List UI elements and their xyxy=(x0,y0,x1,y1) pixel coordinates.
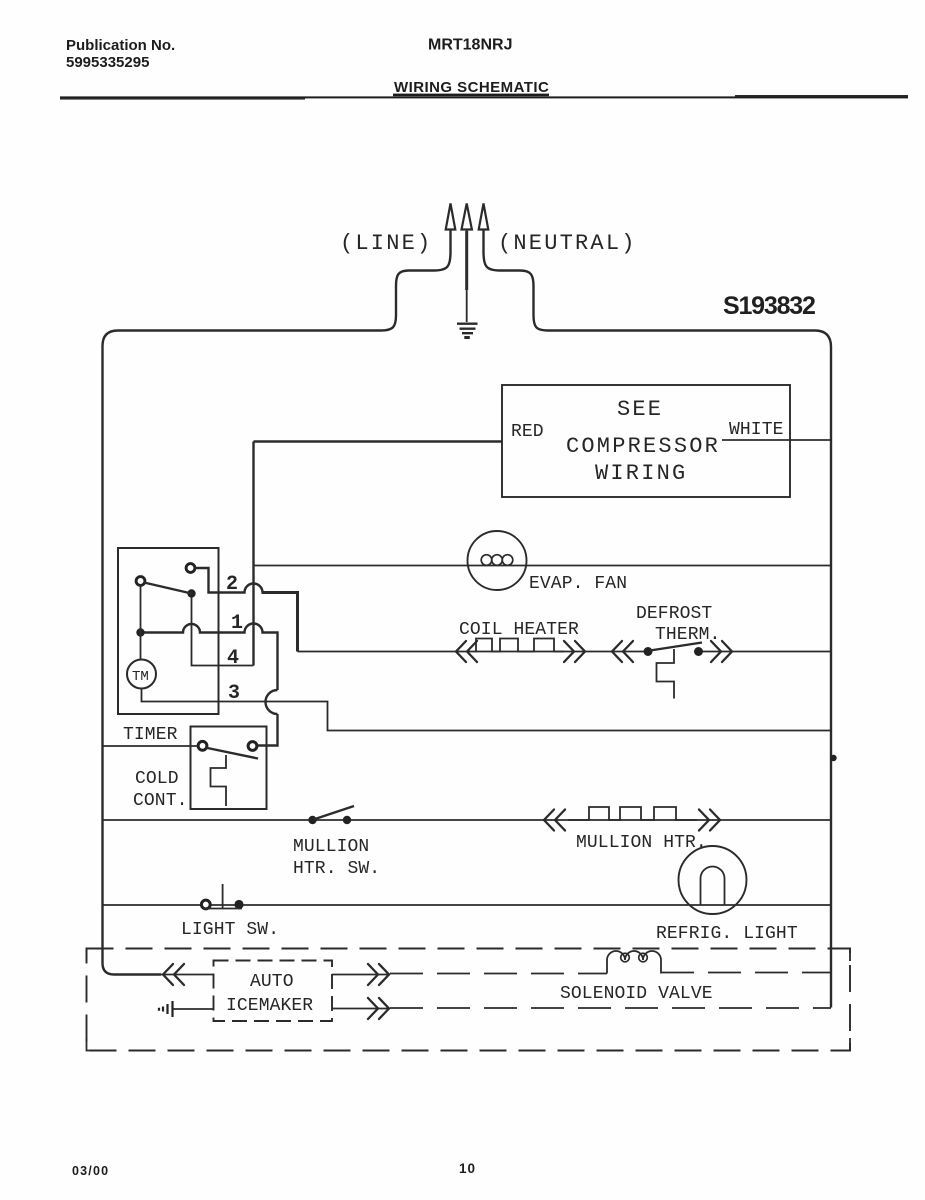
terminal mullion switch right (dot) xyxy=(343,816,351,824)
bellows zigzag defrost therm xyxy=(657,649,675,699)
svg-text:RED: RED xyxy=(511,422,544,442)
terminal timer junction (dot) xyxy=(136,628,144,636)
switch blade mullion heater switch xyxy=(314,806,355,820)
svg-text:4: 4 xyxy=(227,647,239,670)
svg-text:S193832: S193832 xyxy=(723,292,815,320)
svg-text:WIRING: WIRING xyxy=(595,461,687,486)
terminal cold control left (ring) xyxy=(198,741,207,750)
wire white lead from compressor box to right bus xyxy=(722,439,831,441)
svg-text:DEFROST: DEFROST xyxy=(636,604,712,624)
svg-text:10: 10 xyxy=(459,1161,476,1176)
svg-text:ICEMAKER: ICEMAKER xyxy=(226,996,313,1016)
wire evaporator fan line xyxy=(254,565,832,567)
svg-text:3: 3 xyxy=(228,682,240,705)
switch blade cold control xyxy=(205,748,258,759)
wire vertical feeder x=253 xyxy=(252,442,254,666)
dashed wire lower to right bus xyxy=(390,1007,831,1009)
svg-text:AUTO: AUTO xyxy=(250,972,294,992)
plunger light switch xyxy=(222,884,224,908)
svg-text:MULLION HTR.: MULLION HTR. xyxy=(576,833,707,853)
wire pin 2: contact to coil heater line (with crossover hump) xyxy=(195,568,263,593)
svg-text:(LINE): (LINE) xyxy=(340,231,432,256)
svg-text:EVAP. FAN: EVAP. FAN xyxy=(529,574,627,594)
terminal cold control right (ring) xyxy=(248,742,257,751)
wire center ground stem xyxy=(466,230,468,323)
terminal mullion switch left (dot) xyxy=(308,816,316,824)
svg-text:Publication No.: Publication No. xyxy=(66,37,175,54)
wire coil heater line xyxy=(298,651,832,653)
wire pin 3: TM motor to lower bus wire xyxy=(142,689,832,731)
svg-text:MRT18NRJ: MRT18NRJ xyxy=(428,37,512,54)
motor EVAP. FAN circle xyxy=(468,531,527,590)
lamp filament loop xyxy=(701,867,725,906)
arrow neutral terminal xyxy=(479,204,489,230)
connector chevrons into icemaker xyxy=(163,964,184,985)
svg-text:COLD: COLD xyxy=(135,769,179,789)
connector chevrons right of defrost therm xyxy=(711,641,732,662)
dashed wire to solenoid valve xyxy=(390,973,607,975)
svg-text:HTR. SW.: HTR. SW. xyxy=(293,859,380,879)
timer box xyxy=(118,548,219,714)
resistor COIL HEATER xyxy=(475,639,564,652)
terminal defrost therm left (dot) xyxy=(644,647,653,656)
svg-text:(NEUTRAL): (NEUTRAL) xyxy=(498,231,637,256)
wire mullion heater line xyxy=(103,819,832,821)
bellows zigzag cold control xyxy=(211,755,227,806)
wire icemaker lower output xyxy=(332,1008,390,1010)
header title underline xyxy=(393,94,549,97)
dashed wire solenoid to right bus xyxy=(661,972,831,974)
header horizontal rule xyxy=(60,96,908,98)
connector chevrons icemaker upper output xyxy=(368,964,389,985)
chassis ground symbol icemaker xyxy=(159,1001,173,1017)
svg-text:REFRIG. LIGHT: REFRIG. LIGHT xyxy=(656,924,798,944)
wire icemaker ground lead xyxy=(173,1008,214,1010)
svg-text:TM: TM xyxy=(132,669,149,685)
svg-text:1: 1 xyxy=(231,612,243,635)
connector chevrons icemaker lower output xyxy=(368,998,389,1019)
resistor MULLION HTR. xyxy=(568,807,697,820)
ground symbol (top center) xyxy=(457,324,478,338)
wire left bus to cold control xyxy=(103,745,201,747)
svg-text:WHITE: WHITE xyxy=(729,420,784,440)
switch blade timer xyxy=(144,583,192,594)
svg-text:SEE: SEE xyxy=(617,397,663,422)
connector chevrons right of mullion heater xyxy=(699,810,720,831)
motor TM circle xyxy=(127,660,156,689)
svg-text:TIMER: TIMER xyxy=(123,725,178,745)
svg-text:2: 2 xyxy=(226,573,238,596)
box COLD CONT xyxy=(191,727,267,810)
wire light switch line xyxy=(103,904,832,906)
arrow line terminal xyxy=(446,204,456,230)
svg-text:03/00: 03/00 xyxy=(72,1164,109,1178)
wire pin 1: junction to cold control (two crossover humps) xyxy=(145,624,278,746)
dashed box corner brackets xyxy=(87,949,851,1051)
connector chevrons left of mullion heater xyxy=(544,810,565,831)
connector chevrons left of defrost therm xyxy=(612,641,633,662)
svg-text:COMPRESSOR: COMPRESSOR xyxy=(566,434,720,459)
terminal light switch left (ring) xyxy=(201,900,210,909)
crossover hump on vertical over TM wire xyxy=(266,690,278,714)
wire pin 4: contact 4 to feeder bottom xyxy=(192,597,254,666)
solenoid coil loops xyxy=(621,953,648,962)
wire pivot to TM motor xyxy=(140,585,142,660)
wire red lead to compressor box xyxy=(254,440,503,442)
solenoid valve coil xyxy=(607,951,661,974)
wire icemaker upper output xyxy=(332,974,390,976)
terminal timer pivot (ring) xyxy=(136,577,145,586)
svg-text:WIRING SCHEMATIC: WIRING SCHEMATIC xyxy=(394,79,549,96)
wire line input S-curve to left bus xyxy=(103,230,451,975)
svg-text:CONT.: CONT. xyxy=(133,791,188,811)
svg-text:THERM.: THERM. xyxy=(655,625,720,645)
wire neutral input S-curve to right bus xyxy=(484,230,832,1008)
box AUTO ICEMAKER (dashed) xyxy=(214,961,333,1022)
switch blade defrost therm xyxy=(650,643,702,651)
svg-text:COIL HEATER: COIL HEATER xyxy=(459,620,579,640)
svg-text:5995335295: 5995335295 xyxy=(66,54,149,71)
lamp REFRIG. LIGHT circle xyxy=(679,846,747,914)
terminal defrost therm right (dot) xyxy=(694,647,703,656)
terminal light switch right (dot) xyxy=(234,900,243,909)
terminal timer contact 2 (ring) xyxy=(186,564,195,573)
svg-text:LIGHT SW.: LIGHT SW. xyxy=(181,920,279,940)
box SEE COMPRESSOR WIRING xyxy=(502,385,790,497)
svg-text:MULLION: MULLION xyxy=(293,837,369,857)
arrow ground terminal xyxy=(462,204,472,230)
dashed icemaker enclosure box xyxy=(87,949,851,1051)
terminal timer contact 4 (dot) xyxy=(187,589,195,597)
junction speck on right bus xyxy=(830,755,836,761)
coil loops inside fan motor xyxy=(481,555,513,566)
light switch lower bar xyxy=(203,908,242,910)
connector chevrons right of coil heater xyxy=(564,641,585,662)
wire left bus into icemaker xyxy=(114,974,214,976)
svg-text:SOLENOID VALVE: SOLENOID VALVE xyxy=(560,984,713,1004)
connector chevrons left of coil heater xyxy=(456,641,477,662)
